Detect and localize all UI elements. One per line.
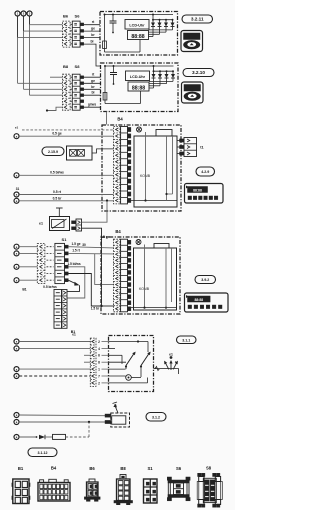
symbol clock motor (circle-X) middle — [137, 127, 142, 132]
svg-text:t1: t1 — [200, 146, 203, 150]
terminal circle S1-2 — [14, 251, 19, 256]
wire bus vertical 3 — [29, 16, 31, 25]
terminal circle 15 (top left) — [27, 11, 32, 16]
reference pill 3.9.2 — [195, 276, 216, 284]
wire bus vertical 1 cont — [17, 38, 19, 84]
wire 0.5 br — [19, 200, 113, 202]
wire bus vertical 3 cont — [29, 25, 31, 96]
svg-text:S1: S1 — [62, 237, 68, 242]
svg-text:1.5 bl/ws: 1.5 bl/ws — [67, 262, 81, 266]
lamp cluster symbol — [163, 360, 171, 370]
wire S8 pin2 ge — [84, 82, 101, 84]
svg-text:1,: 1, — [175, 360, 178, 364]
wire stub row4 — [84, 361, 90, 363]
component 3.1.2 box — [111, 413, 130, 427]
terminal circle sw5 — [14, 367, 19, 372]
symbol clock motor (circle-X) lower — [136, 240, 141, 245]
svg-text:ge: ge — [91, 79, 95, 83]
wire S8 pin3 br — [84, 88, 101, 90]
wire S6 pin3 br — [84, 37, 100, 39]
terminal circle S1-6 — [14, 278, 19, 283]
terminal circle c2 — [14, 420, 19, 425]
wire B8 row6 from junction — [47, 107, 63, 110]
svg-text:e1: e1 — [15, 126, 19, 130]
wire S1 row1 left — [19, 246, 37, 248]
connector face B4 — [38, 483, 70, 502]
svg-text:e1: e1 — [72, 333, 76, 337]
svg-text:3.1.2: 3.1.2 — [152, 415, 160, 419]
svg-text:B4: B4 — [51, 466, 57, 471]
terminal circle rt — [14, 192, 19, 197]
wire S1 row4 (1.5 bl/ws) — [67, 267, 85, 298]
radio clock icon middle — [185, 184, 224, 204]
svg-text:2: 2 — [98, 340, 100, 344]
wire S6 pin2 ge — [84, 30, 100, 32]
wire c2 — [19, 421, 105, 423]
dashed box B4 lower — [101, 237, 180, 314]
wire c3 riser — [88, 422, 90, 437]
svg-text:e1: e1 — [39, 222, 43, 226]
svg-text:2.15.9: 2.15.9 — [48, 150, 58, 154]
reference oval 3.1.12 — [28, 448, 57, 457]
switch internals 3.1.1 — [102, 341, 109, 343]
svg-text:3.9.2: 3.9.2 — [201, 278, 209, 282]
terminal circle S1-1 — [14, 244, 19, 249]
connector face S8 — [204, 480, 209, 501]
svg-text:0.5 bl/ws: 0.5 bl/ws — [50, 171, 64, 175]
svg-text:S6: S6 — [176, 466, 182, 471]
wire sw row1 — [19, 341, 90, 343]
svg-text:0.5 ge: 0.5 ge — [52, 132, 62, 136]
rheostat e1 with wiper — [50, 217, 70, 231]
terminal circle br — [14, 198, 19, 203]
dashed box switch 3.1.1 — [109, 336, 154, 392]
svg-text:e1: e1 — [169, 353, 173, 357]
radio clock icon lower — [185, 293, 229, 312]
svg-text:1.5 br: 1.5 br — [91, 307, 100, 311]
svg-text:LCD-Uhr: LCD-Uhr — [130, 75, 146, 79]
dashed wire row1 — [22, 129, 114, 131]
wire 0.5 ge — [19, 135, 113, 137]
svg-text:88:88: 88:88 — [193, 189, 202, 193]
clock unit 1 (LCD-Uhr) dashed box — [100, 12, 178, 56]
svg-text:B8: B8 — [63, 64, 69, 69]
svg-text:LCD-Uhr: LCD-Uhr — [129, 24, 145, 28]
svg-text:gr/ws: gr/ws — [88, 103, 97, 107]
connector strip at switch — [90, 338, 96, 386]
wire S1 row1 (1.5 ge / 30) — [68, 247, 113, 248]
connector t1 — [177, 140, 180, 142]
terminal circle 30 (top left) — [15, 11, 20, 16]
svg-text:4.2.9: 4.2.9 — [201, 170, 209, 174]
wire S1 row2 (1.5 rt) — [68, 252, 113, 255]
wire stub B8 row1 — [50, 76, 63, 78]
svg-text:B6: B6 — [89, 466, 95, 471]
wire out to lamps — [154, 368, 167, 370]
wire sw row2 — [19, 347, 90, 349]
svg-text:B6: B6 — [63, 14, 69, 19]
svg-text:3.1.12: 3.1.12 — [38, 451, 48, 455]
connector face B1 — [13, 479, 29, 504]
bottom bus lower — [131, 307, 177, 309]
svg-text:0.5 br: 0.5 br — [53, 196, 63, 200]
wire S8 pin6 gr/ws — [84, 106, 101, 108]
2-pin connector at rheostat — [76, 219, 82, 231]
svg-text:0.5 br/ws: 0.5 br/ws — [43, 285, 57, 289]
svg-text:bl: bl — [91, 91, 94, 95]
terminal circle c3 — [14, 435, 19, 440]
terminal circle sw2 — [14, 346, 19, 351]
dashed box B4 middle — [102, 125, 181, 211]
wire S8 pin4 bl — [84, 94, 101, 96]
clock pictogram icon 2 — [182, 82, 204, 103]
svg-text:ge: ge — [91, 27, 95, 31]
wire lampbox to B4 — [92, 149, 114, 153]
svg-text:S1: S1 — [147, 466, 153, 471]
wire 1.5 br into lower B4 — [102, 305, 114, 307]
svg-text:3.1.1: 3.1.1 — [182, 338, 190, 342]
reference pill 3.2.10 — [183, 69, 214, 77]
reference pill 3.1.1 — [177, 336, 197, 344]
inner right verticals lower — [165, 248, 167, 308]
wire S1 row2 branch down — [95, 254, 114, 285]
connector strip inside B4 middle — [114, 127, 121, 204]
inner wire vertical middle — [145, 132, 147, 201]
svg-text:88:88: 88:88 — [194, 298, 203, 302]
wire corner bus1 to B8 row2 — [18, 82, 63, 84]
terminal circle sw1 — [14, 339, 19, 344]
svg-text:B4: B4 — [117, 117, 123, 122]
instrument unit rect middle — [134, 136, 177, 207]
wire S6 pin4 bl — [84, 44, 101, 66]
reference pill 4.2.9 — [196, 167, 215, 176]
svg-text:bl: bl — [90, 40, 93, 44]
svg-text:88:88: 88:88 — [132, 85, 145, 91]
connector face S1 — [144, 479, 158, 503]
wire bus vertical 2 — [23, 16, 25, 31]
svg-text:3.2.10: 3.2.10 — [192, 70, 205, 75]
connector face B8 — [117, 479, 131, 501]
wire to B6 pin3 — [18, 37, 63, 39]
tab resistor on top lower — [154, 244, 169, 249]
instrument unit rect lower — [134, 248, 177, 310]
svg-text:B8: B8 — [120, 466, 126, 471]
reference pill 3.1.2 — [146, 413, 166, 422]
wire 0.5 bl/ws — [19, 174, 113, 176]
svg-text:S8: S8 — [206, 466, 212, 471]
svg-text:B1: B1 — [18, 466, 24, 471]
wire S8 pin1 rt — [84, 76, 101, 78]
svg-text:3.2.11: 3.2.11 — [191, 17, 204, 22]
wire sw row5 — [19, 368, 90, 370]
svg-text:4: 4 — [98, 347, 100, 351]
reference oval 2.15.9 — [42, 147, 64, 156]
svg-text:31: 31 — [16, 187, 20, 191]
connector B6/S6 — [63, 21, 71, 47]
svg-text:7: 7 — [98, 374, 100, 378]
wire c3 diode resistor — [19, 436, 36, 438]
connector B1/S1 strips — [37, 243, 45, 283]
svg-text:B1: B1 — [22, 288, 26, 292]
svg-text:2: 2 — [98, 381, 100, 385]
connector strip inside B4 lower — [114, 239, 121, 312]
terminal circle bl/ws — [14, 173, 19, 178]
wire to B6 pin1 — [30, 24, 63, 26]
svg-text:B4: B4 — [115, 229, 121, 234]
clock pictogram icon 1 — [181, 31, 203, 52]
clock unit 2 (LCD-Uhr) dashed box — [101, 63, 179, 112]
svg-text:1.5 rt: 1.5 rt — [72, 249, 81, 253]
svg-text:8: 8 — [98, 361, 100, 365]
svg-text:6: 6 — [98, 354, 100, 358]
connector face B6 — [87, 482, 99, 498]
wire to B6 pin2 — [24, 30, 63, 32]
terminal circle row2 — [14, 134, 19, 139]
lamp box (2 indicators) — [67, 146, 93, 160]
wire sw row6 dashed — [19, 375, 90, 377]
wire bus vertical 2 cont — [23, 31, 25, 89]
wire S1 row5 down — [68, 274, 101, 307]
bottom bus middle — [131, 200, 177, 202]
wire 0.5 rt — [19, 194, 113, 196]
wire corner bus2 to B8 row3 — [24, 88, 63, 90]
wire rheostat pin2 down (1.5 ge) — [82, 228, 102, 306]
svg-text:88:88: 88:88 — [131, 34, 144, 40]
svg-text:0.5 rt: 0.5 rt — [53, 190, 62, 194]
wire rheostat pin1 to bus — [82, 201, 108, 223]
connector B1 lower strip — [54, 290, 62, 329]
connector face S6 — [168, 480, 189, 483]
wire bus vertical 1 — [17, 16, 19, 37]
wire c1 — [19, 414, 105, 417]
tab resistor on top middle — [156, 130, 172, 137]
terminal circle S1-4 — [14, 264, 19, 269]
svg-text:S6: S6 — [75, 14, 81, 19]
inner wire vertical lower — [144, 245, 146, 308]
reference pill 3.2.11 — [182, 15, 213, 23]
inner wire right verticals middle — [166, 136, 168, 201]
connector B8/S8 — [63, 74, 71, 110]
wire clock2 to B4 link — [106, 112, 108, 125]
wire into B1 lower row1 — [67, 285, 80, 291]
terminal circle 58 (top left) — [21, 11, 26, 16]
svg-text:1: 1 — [98, 368, 100, 372]
svg-text:S8: S8 — [75, 64, 81, 69]
svg-text:1.5 ge: 1.5 ge — [71, 242, 80, 246]
wire S6 pin1 rt — [84, 24, 100, 26]
wire S1 row2 left — [19, 252, 37, 254]
svg-text:30: 30 — [82, 243, 86, 247]
wire corner bus3 to B8 row4 — [30, 94, 63, 96]
switch lever 3.1.2 — [115, 405, 119, 414]
terminal circle c1 — [14, 413, 19, 418]
wire S1 row6 diagonal — [68, 280, 77, 284]
terminal circle sw6 — [14, 374, 19, 379]
component 3.1.2 pins — [105, 414, 111, 417]
wire stub row3 — [84, 354, 90, 356]
wire S1 row4 left — [19, 266, 37, 268]
wire S1 row6 left — [19, 279, 37, 281]
